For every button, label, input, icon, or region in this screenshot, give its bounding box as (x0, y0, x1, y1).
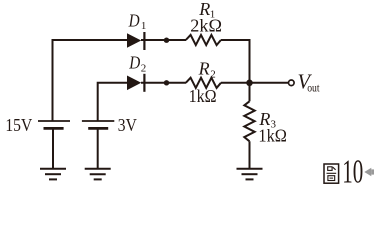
wire top rail to D1 anode (52, 39, 128, 41)
ground under V1 (40, 169, 66, 180)
ground under V2 (85, 169, 111, 180)
battery V2 3V (82, 121, 114, 128)
svg-text:D: D (128, 52, 140, 72)
svg-text:2kΩ: 2kΩ (190, 15, 222, 35)
wire D1 cathode to R1 (141, 39, 186, 41)
svg-text:2: 2 (141, 63, 147, 75)
wire R3 to ground (249, 141, 251, 168)
label R1 (198, 0, 215, 21)
svg-text:15V: 15V (5, 115, 32, 135)
wire D2 cathode to R2 (141, 82, 186, 84)
node dot after D2 (164, 80, 169, 85)
resistor R2 zigzag (186, 78, 221, 88)
svg-text:2: 2 (210, 68, 216, 80)
wire D2 rail from 3V battery riser (98, 83, 128, 121)
wire node down to R3 (249, 83, 251, 102)
diode D2 (127, 74, 144, 92)
svg-text:3V: 3V (118, 115, 137, 135)
wire battery V1 to ground (52, 130, 54, 169)
gray reference arrow mark (364, 168, 374, 177)
svg-text:10: 10 (342, 153, 363, 190)
resistor R3 vertical zigzag (244, 101, 254, 141)
Vout open terminal circle (289, 80, 295, 86)
ground under R3 (237, 169, 263, 180)
wire R2 to output node and Vout terminal (221, 82, 288, 84)
label Vout (298, 70, 321, 95)
svg-text:R: R (198, 59, 210, 79)
diode D1 (127, 32, 144, 50)
label D2 (128, 52, 146, 74)
svg-text:D: D (128, 11, 140, 31)
junction node dot (246, 80, 253, 87)
wire top-left vertical (15V + to top rail) (52, 40, 54, 121)
node dot after D1 (164, 38, 169, 43)
wire R1 to right corner, down to node (221, 40, 250, 83)
label R2 (198, 59, 216, 81)
wire battery V2 to ground (97, 130, 99, 169)
battery V1 15V (38, 121, 70, 128)
label R3 (258, 109, 276, 131)
svg-text:1kΩ: 1kΩ (258, 125, 287, 145)
resistor R1 zigzag (186, 35, 221, 45)
label D1 (128, 11, 147, 32)
svg-text:1: 1 (141, 20, 147, 32)
figure caption CJK glyph tu (drawn) (324, 164, 339, 183)
svg-text:out: out (307, 82, 320, 94)
svg-text:1kΩ: 1kΩ (189, 86, 217, 106)
